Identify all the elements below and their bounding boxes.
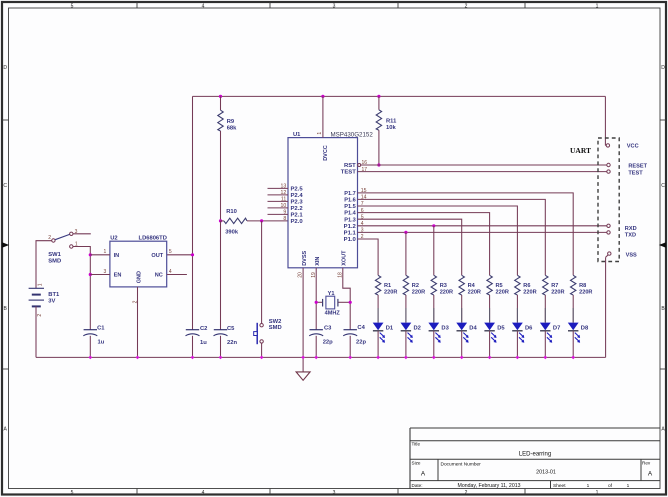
svg-text:1u: 1u [200, 340, 207, 346]
svg-text:LD6806TD: LD6806TD [139, 236, 167, 242]
pin UART TEST [607, 170, 643, 176]
svg-text:2: 2 [133, 300, 139, 303]
svg-text:P1.5: P1.5 [344, 204, 356, 210]
LED D4 [456, 308, 477, 343]
pin U1 P2.0 pin 8 [283, 216, 303, 225]
svg-text:R4: R4 [468, 283, 476, 289]
svg-text:P1.0: P1.0 [344, 237, 357, 243]
connector J1 UART header [570, 138, 619, 262]
capacitor C2 1u [186, 326, 208, 357]
svg-text:GND: GND [136, 271, 142, 283]
svg-text:4: 4 [202, 490, 205, 496]
svg-text:U2: U2 [110, 236, 117, 242]
pin UART RXD [607, 224, 637, 232]
svg-text:220R: 220R [384, 290, 397, 296]
pin U1 P1.7 pin 15 [344, 188, 366, 197]
IC U2 LD6806TD voltage regulator body [110, 236, 167, 287]
resistor R9 68k [218, 96, 237, 220]
svg-text:220R: 220R [551, 290, 564, 296]
capacitor C1 1u [83, 325, 105, 357]
switch SW2 SMD pushbutton [254, 221, 282, 358]
wire SW1 pin1 to U2 IN / EN / C1 column [73, 247, 92, 330]
wire P1.0 to resistor R1 column [358, 239, 379, 275]
wire R10 to U1 P2.0 pin 8 [260, 219, 288, 222]
svg-text:SMD: SMD [269, 325, 282, 331]
svg-text:1: 1 [587, 483, 590, 489]
svg-text:U1: U1 [293, 132, 301, 138]
svg-text:RXD: RXD [625, 226, 637, 232]
svg-text:1: 1 [104, 249, 107, 255]
svg-text:XIN: XIN [315, 257, 321, 266]
svg-text:R1: R1 [384, 283, 391, 289]
svg-text:68k: 68k [227, 125, 237, 131]
svg-text:12: 12 [281, 190, 287, 196]
svg-text:SW1: SW1 [48, 252, 61, 258]
wire D6 cathode to ground rail [516, 331, 518, 358]
svg-text:D7: D7 [553, 326, 560, 332]
svg-text:D2: D2 [414, 326, 421, 332]
resistor R1 220R [375, 275, 397, 322]
svg-text:C4: C4 [357, 325, 365, 331]
svg-text:5: 5 [169, 249, 172, 255]
pin U1 P1.1 pin 3 [344, 228, 364, 237]
svg-text:5: 5 [71, 3, 74, 9]
pin U1 P1.4 pin 6 [344, 208, 363, 217]
svg-text:P1.3: P1.3 [344, 217, 356, 223]
svg-text:220R: 220R [440, 290, 453, 296]
svg-text:5: 5 [71, 490, 74, 496]
svg-text:Rev: Rev [642, 460, 651, 465]
pin U1 P1.0 pin 2 [344, 234, 364, 243]
resistor R6 220R [515, 275, 537, 322]
wire U2 OUT to VCC drop [167, 253, 194, 256]
capacitor C3 22p [309, 325, 333, 357]
svg-text:1: 1 [38, 283, 44, 286]
junction VCC rail at R9 [219, 95, 222, 98]
pin UART RESET [607, 163, 648, 169]
svg-text:22n: 22n [227, 340, 237, 346]
pin U1 P1.3 pin 5 [344, 214, 363, 223]
svg-text:3: 3 [104, 269, 107, 275]
svg-text:C: C [661, 183, 665, 189]
svg-text:3V: 3V [48, 298, 55, 304]
resistor R10 390k [219, 209, 268, 235]
pin U2 NC pin 4 [167, 269, 187, 275]
junction dots on ground rail [88, 356, 575, 360]
pin U2 OUT pin 5 [169, 249, 172, 255]
pin U1 P2.4 pin 12 [268, 190, 304, 199]
svg-text:Monday, February 11, 2013: Monday, February 11, 2013 [458, 483, 521, 489]
svg-text:D4: D4 [469, 326, 477, 332]
svg-text:VSS: VSS [626, 252, 637, 258]
wire D2 cathode to ground rail [405, 331, 407, 358]
pin UART VCC [606, 144, 638, 150]
svg-text:19: 19 [311, 272, 317, 278]
svg-text:TEST: TEST [628, 170, 643, 176]
svg-text:Y1: Y1 [328, 291, 335, 297]
svg-text:D: D [3, 65, 7, 71]
svg-text:P1.2: P1.2 [344, 224, 357, 230]
junction VCC rail at U1 DVCC [321, 95, 324, 98]
wire D5 cathode to ground rail [489, 331, 491, 358]
wire P1.2 / RXD net [358, 224, 607, 275]
svg-text:Document Number: Document Number [441, 461, 482, 467]
svg-text:A: A [421, 471, 426, 478]
svg-text:C1: C1 [97, 325, 105, 331]
pin U2 EN pin 3 [90, 269, 110, 275]
crystal Y1 4MHZ [315, 291, 352, 316]
svg-text:P2.4: P2.4 [291, 193, 304, 199]
svg-text:P2.2: P2.2 [291, 206, 304, 212]
LED D1 [373, 308, 394, 343]
pin UART VSS [606, 252, 637, 258]
svg-text:RESET: RESET [628, 163, 647, 169]
pin UART TXD [607, 231, 636, 239]
svg-text:220R: 220R [496, 290, 509, 296]
pin U1 P1.5 pin 7 [344, 201, 363, 210]
wire SW1 pin3 stub [73, 233, 91, 235]
wire VCC rail right drop to UART VCC pin [604, 96, 607, 145]
svg-text:1: 1 [596, 3, 599, 9]
pin U1 P1.6 pin 14 [344, 195, 366, 204]
LED D6 [512, 308, 533, 343]
svg-text:20: 20 [298, 272, 304, 278]
wire D3 cathode to ground rail [433, 331, 435, 358]
pin U1 DVSS pin 20 [298, 268, 304, 358]
IC U1 MSP430G2152 microcontroller body [288, 131, 373, 267]
svg-text:R11: R11 [386, 119, 397, 125]
wire P1.7 to resistor column [358, 193, 574, 275]
resistor R11 10k [376, 96, 397, 166]
svg-text:18: 18 [337, 272, 343, 278]
svg-text:OUT: OUT [151, 253, 163, 259]
svg-text:DVSS: DVSS [302, 250, 308, 265]
svg-text:2: 2 [48, 235, 51, 241]
svg-text:220R: 220R [523, 290, 536, 296]
svg-text:2: 2 [465, 490, 468, 496]
svg-text:1: 1 [627, 483, 630, 489]
svg-text:4: 4 [169, 269, 172, 275]
resistor R7 220R [543, 275, 565, 322]
node GND - bottom ground rail wire [36, 356, 606, 358]
wire RST net to UART RESET [361, 164, 607, 166]
svg-text:RST: RST [344, 163, 356, 169]
wire TEST net to UART TEST [358, 171, 607, 173]
pin U1 XIN pin 19 [311, 268, 317, 330]
svg-text:C2: C2 [200, 326, 207, 332]
svg-text:SMD: SMD [48, 258, 61, 264]
svg-text:A: A [648, 471, 653, 478]
wire D4 cathode to ground rail [461, 331, 463, 358]
switch SW1 SMD spdt [48, 229, 78, 264]
svg-text:P1.6: P1.6 [344, 198, 356, 204]
pin U1 XOUT pin 18 [337, 268, 350, 330]
wire D1 cathode to ground rail [377, 331, 379, 358]
resistor R3 220R [431, 275, 453, 322]
svg-text:1: 1 [317, 132, 323, 135]
svg-text:P2.1: P2.1 [291, 213, 304, 219]
LED D8 [568, 308, 589, 343]
svg-text:R9: R9 [227, 119, 235, 125]
svg-text:4: 4 [202, 3, 205, 9]
svg-text:D1: D1 [386, 326, 394, 332]
pin U1.1 DVCC top stub [317, 96, 323, 137]
LED D3 [428, 308, 449, 343]
svg-text:SW2: SW2 [269, 319, 282, 325]
svg-text:10k: 10k [386, 125, 396, 131]
svg-text:220R: 220R [468, 290, 481, 296]
resistor R5 220R [487, 275, 509, 322]
wire P1.5 to resistor column [358, 206, 518, 275]
svg-text:LED-earring: LED-earring [519, 452, 551, 458]
svg-text:1: 1 [596, 490, 599, 496]
svg-text:9: 9 [283, 210, 286, 216]
resistor R2 220R [403, 275, 425, 322]
svg-text:R5: R5 [496, 283, 503, 289]
svg-text:P1.4: P1.4 [344, 211, 356, 217]
battery BT1 3V [29, 241, 60, 358]
svg-text:TXD: TXD [625, 233, 636, 239]
svg-text:of: of [608, 483, 613, 489]
pin U1 P2.5 pin 13 [268, 184, 304, 193]
svg-text:11: 11 [281, 197, 286, 203]
pin U2 GND pin 2 [133, 287, 139, 358]
svg-text:D8: D8 [581, 326, 589, 332]
ground symbol [296, 357, 310, 380]
svg-text:R2: R2 [412, 283, 419, 289]
svg-text:3: 3 [333, 3, 336, 9]
svg-text:10: 10 [281, 203, 287, 209]
svg-text:TEST: TEST [341, 170, 356, 176]
svg-text:390k: 390k [225, 229, 239, 235]
svg-text:R10: R10 [226, 209, 237, 215]
wire P1.6 to resistor column [358, 199, 546, 275]
svg-text:22p: 22p [323, 340, 333, 346]
svg-text:D5: D5 [497, 326, 505, 332]
svg-text:Sheet: Sheet [553, 483, 566, 489]
wire UART VSS to ground rail [605, 257, 607, 357]
svg-text:13: 13 [281, 184, 287, 190]
wire VCC rail left drop to U2 OUT and C2 [192, 96, 194, 329]
svg-text:P1.1: P1.1 [344, 231, 357, 237]
pin U1 P2.1 pin 9 [268, 210, 304, 219]
wire D8 cathode to ground rail [572, 331, 574, 358]
svg-text:UART: UART [570, 146, 591, 155]
svg-text:D: D [661, 65, 665, 71]
svg-text:22p: 22p [356, 340, 366, 346]
svg-text:BT1: BT1 [48, 292, 60, 298]
junction VCC rail at R11 [377, 95, 380, 98]
svg-text:220R: 220R [412, 290, 425, 296]
svg-text:Size: Size [412, 460, 421, 465]
svg-text:C3: C3 [324, 325, 332, 331]
svg-text:EN: EN [114, 273, 122, 279]
LED D7 [540, 308, 560, 343]
svg-text:D6: D6 [525, 326, 533, 332]
capacitor C4 22p [343, 325, 366, 358]
pin U1 P1.2 pin 4 [344, 221, 364, 230]
svg-text:Date:: Date: [412, 483, 423, 488]
svg-text:P2.3: P2.3 [291, 200, 304, 206]
svg-text:Title: Title [412, 442, 421, 447]
pin U1 P2.2 pin 10 [268, 203, 304, 212]
svg-text:VCC: VCC [627, 144, 639, 150]
svg-text:IN: IN [114, 253, 120, 259]
pin U1 RST pin 16 with bubble [344, 160, 367, 169]
svg-text:1u: 1u [98, 339, 105, 345]
svg-text:R3: R3 [440, 283, 447, 289]
svg-text:8: 8 [283, 216, 286, 222]
svg-text:P1.7: P1.7 [344, 191, 356, 197]
svg-text:R8: R8 [579, 283, 586, 289]
svg-text:NC: NC [155, 273, 163, 279]
LED D2 [401, 308, 421, 343]
pin U1 TEST pin 17 [341, 167, 368, 176]
svg-text:3: 3 [333, 490, 336, 496]
LED D5 [484, 308, 505, 343]
svg-text:DVCC: DVCC [323, 145, 329, 161]
svg-text:C: C [3, 183, 7, 189]
svg-text:R7: R7 [551, 283, 558, 289]
resistor R4 220R [459, 275, 481, 322]
pin U1 P2.3 pin 11 [268, 197, 304, 206]
node VCC - top power rail wire [193, 95, 606, 97]
svg-text:2: 2 [37, 314, 43, 317]
wire P1.1 / TXD net [358, 231, 607, 276]
svg-text:D3: D3 [441, 326, 449, 332]
wire P1.4 to resistor column [358, 213, 490, 276]
wire P1.3 to resistor column [358, 219, 462, 275]
svg-text:MSP430G2152: MSP430G2152 [331, 131, 374, 138]
pin U2 IN pin 1 [90, 249, 110, 255]
resistor R8 220R [571, 275, 593, 322]
svg-text:2013-01: 2013-01 [536, 469, 556, 475]
svg-text:C5: C5 [227, 326, 235, 332]
svg-text:XOUT: XOUT [342, 250, 348, 266]
wire D7 cathode to ground rail [544, 331, 546, 358]
svg-text:220R: 220R [579, 290, 592, 296]
svg-text:P2.5: P2.5 [291, 187, 304, 193]
svg-text:4MHZ: 4MHZ [325, 311, 341, 317]
svg-text:P2.0: P2.0 [291, 219, 304, 225]
capacitor C5 22n [214, 221, 238, 358]
svg-text:R6: R6 [523, 283, 530, 289]
svg-text:2: 2 [465, 3, 468, 9]
